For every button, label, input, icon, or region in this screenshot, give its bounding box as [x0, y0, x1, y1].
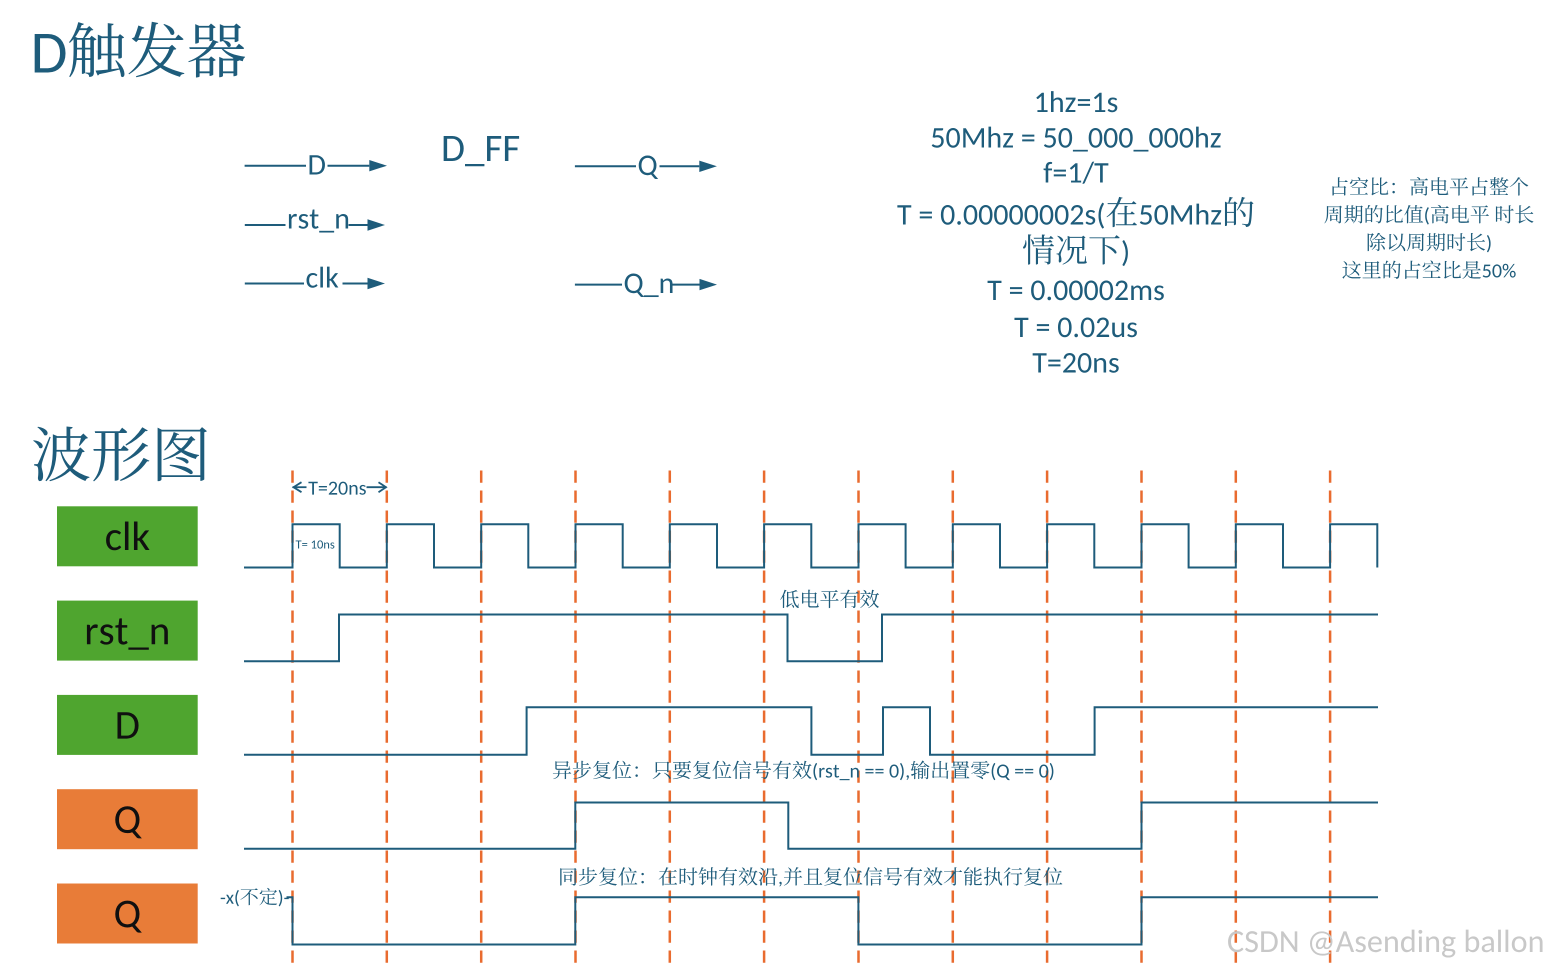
input wire D with arrow	[245, 155, 387, 174]
note sync reset explanation	[560, 867, 1062, 887]
grid dashed timeline 10	[1140, 471, 1143, 969]
signal label box rst_n	[57, 601, 198, 661]
grid dashed timeline 1	[291, 471, 294, 969]
waveform clk (square wave)	[244, 524, 1377, 567]
grid dashed timeline 11	[1235, 471, 1238, 969]
signal label box D	[57, 695, 198, 755]
output wire Q with arrow	[575, 156, 717, 179]
input wire rst_n with arrow	[245, 210, 385, 233]
grid dashed timeline 6	[763, 471, 766, 969]
input wire clk with arrow	[245, 267, 385, 290]
page title: D触发器	[35, 22, 245, 78]
section title: 波形图	[33, 427, 207, 482]
note 低电平有效	[780, 590, 879, 608]
output wire Q_n with arrow	[575, 274, 717, 297]
waveform Q (sync reset)	[287, 897, 1379, 944]
grid dashed timeline 9	[1046, 471, 1049, 969]
grid dashed timeline 2	[386, 471, 389, 969]
grid dashed timeline 8	[952, 471, 955, 969]
waveform Q (async reset)	[244, 803, 1378, 849]
grid dashed timeline 12	[1329, 471, 1332, 969]
note async reset explanation	[553, 761, 1054, 781]
watermark CSDN @Asending ballon	[1228, 930, 1542, 958]
waveform D	[244, 707, 1378, 755]
signal label box Q (sync reset)	[57, 884, 198, 944]
label -x(不定)- undefined state	[221, 888, 289, 907]
D_FF block label	[444, 136, 519, 166]
waveform rst_n	[244, 615, 1378, 662]
duty cycle note (占空比)	[1324, 177, 1533, 279]
period marker T=20ns with arrows	[293, 482, 387, 495]
value label T= 10ns	[296, 540, 335, 548]
frequency and period calculation notes	[897, 91, 1253, 373]
signal label box clk	[57, 506, 198, 566]
signal label box Q	[57, 789, 198, 849]
grid dashed timeline 3	[480, 471, 483, 969]
grid dashed timeline 5	[669, 471, 672, 969]
grid dashed timeline 4	[574, 471, 577, 969]
grid dashed timeline 7	[857, 471, 860, 969]
